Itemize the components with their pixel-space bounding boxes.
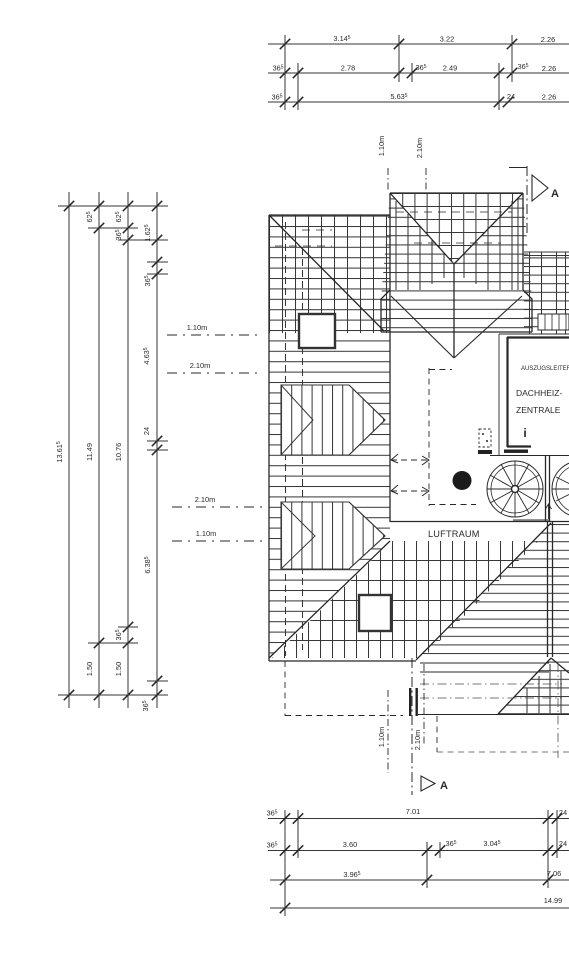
left dim col 1 [68,192,70,708]
bay flank vertical lines [396,199,518,290]
dormer 1 hatch [281,385,385,455]
svg-text:3.60: 3.60 [343,840,357,849]
spiral stair 2 inner [556,465,569,513]
top dim guide x399 [398,35,400,82]
top dim guide x512 [511,35,513,82]
stair up arrow [546,504,552,519]
section arrow A top [532,175,548,201]
bay eave bottom [381,331,532,333]
room top wall thick [507,336,569,338]
marker line 1.10m left lower [172,540,264,542]
small bar left of door [478,450,492,454]
svg-text:1.10m: 1.10m [377,727,386,748]
bay top eave edge [390,192,523,194]
svg-text:2.26: 2.26 [541,35,555,44]
svg-text:10.76: 10.76 [114,443,123,462]
bottom dim guide x440 [439,842,441,858]
dashed box dots [482,434,488,441]
bay dashed headroom line 1 [396,211,512,213]
section wall bar b [416,688,418,716]
svg-text:1.50: 1.50 [85,662,94,676]
room left wall inner thick [506,337,508,447]
svg-text:1.10m: 1.10m [377,136,386,157]
bay upper triangle hatch [390,193,523,264]
room top wall thin [499,333,569,335]
south slope hatch [272,541,538,658]
top dim guide x499 [498,63,500,110]
bottom dim row 3 line [270,879,569,881]
spiral stair 2 outer [552,461,569,517]
dashed luftraum boundary bottom [429,504,476,506]
dormer 1 gable lines [281,385,385,455]
svg-text:2.49: 2.49 [443,64,457,73]
left dim cross y681 [147,680,168,682]
left dim col 4 [156,192,158,708]
svg-text:7.01: 7.01 [406,807,420,816]
top dim guide x412 [411,63,413,82]
svg-text:A: A [551,188,559,200]
luftraum bottom edge [390,521,569,523]
svg-text:A: A [440,780,448,792]
bottom dim guide x557 [556,810,558,858]
left dim cross y240 [118,239,168,241]
bay lower region hatch [381,193,532,332]
marker line 1.10m left upper [167,334,262,336]
svg-text:24: 24 [142,427,151,435]
left dim cross y274 [147,273,168,275]
section wall bar a [409,688,411,716]
top dim guide x285 [284,35,286,110]
marker line 1.10m top [387,168,389,192]
marker line 2.10m bottom [423,664,425,745]
stairwell wall through roof a [547,522,549,657]
dash-dot lower line 1 [420,683,562,685]
stair area top line [490,455,569,457]
bottom dim row 4 line [270,907,569,909]
dashed box near stair [479,429,491,447]
marker line 2.10m top [425,168,427,192]
left dim col 3 [127,192,129,708]
flat area left edge [389,193,391,522]
svg-text:DACHHEIZ-: DACHHEIZ- [516,388,562,398]
dashed terrace bottom [437,751,569,753]
left dim ticks [64,201,74,211]
room bottom wall thick [507,445,531,447]
section line A bottom [411,658,413,795]
top dim row 2 line [268,72,569,74]
marker line 1.10m bottom [387,690,389,773]
svg-text:13.615: 13.615 [55,441,64,463]
bay valley right [454,193,523,264]
stairwell wall through roof b [552,522,554,657]
bottom dim guide x298 [297,810,299,858]
svg-text:3.22: 3.22 [440,35,454,44]
chimney filled circle [453,471,472,490]
wall bottom eave edge [269,660,416,662]
svg-text:AUSZUGSLEITER: AUSZUGSLEITER [521,366,569,372]
spiral stair 1 inner [491,465,539,513]
dashed terrace vertical [436,716,438,752]
dashed luftraum boundary top stub [429,369,452,371]
left dim cross y695 [58,694,168,696]
svg-text:24: 24 [559,839,567,848]
eave SE bottom [418,714,569,716]
left dim cross y441 [147,440,168,442]
PLAN-OUTLINE [167,166,569,795]
west slope vertical dashed line a [285,222,287,656]
spiral stair 1 hub [512,486,519,493]
bay right wall [522,193,524,290]
svg-text:2.10m: 2.10m [195,495,216,504]
bottom dim guide x548 [547,810,549,888]
svg-text:i: i [523,426,526,440]
wall left eave edge [268,215,270,661]
svg-text:1.50: 1.50 [114,662,123,676]
top dim row 1 line [268,43,569,45]
lower roof edge line a [420,662,549,664]
skylight square 1 [299,314,335,348]
lower roof edge line b [420,671,549,673]
svg-text:2.10m: 2.10m [413,730,422,751]
spiral stair 1 bottom chord [513,519,549,521]
bottom dim row 1 line [268,818,569,820]
dashed lower floor outline left vertical [284,661,286,716]
stairwell mid wall b [549,455,551,521]
headroom arrow line 2 [391,485,429,496]
left dim col 2 [98,192,100,708]
PLAN-HATCH [269,193,569,714]
dormer 2 hatch [281,502,385,569]
bottom dim ticks [280,813,290,823]
spiral stair 1 outer [487,461,543,517]
dash-dot vertical right lower [557,663,559,758]
svg-text:1.10m: 1.10m [196,529,217,538]
right band roof hatch [524,255,569,334]
dash-dot lower line 2 [420,697,562,699]
roof face west slope hatch [269,215,390,658]
svg-text:2.26: 2.26 [542,64,556,73]
left dim cross y228 [88,227,138,229]
svg-text:LUFTRAUM: LUFTRAUM [428,529,480,539]
left dim cross y262 [147,261,168,263]
marker line 2.10m left lower [172,506,264,508]
bay ridge [453,264,455,357]
left dim cross y643 [88,642,138,644]
hip SE lower [498,658,551,714]
west slope vertical dashed line b [302,248,304,650]
svg-text:14.99: 14.99 [544,896,563,905]
section line A top [526,166,528,236]
top dim ticks [280,39,290,49]
skylight square 2 [359,595,391,631]
headroom arrow line 1 [391,454,429,465]
stairwell mid wall a [545,455,547,521]
svg-text:1.10m: 1.10m [187,323,208,332]
top dim guide x298 [297,63,299,110]
bay lower V right [454,296,522,358]
svg-text:2.78: 2.78 [341,64,355,73]
svg-text:2.10m: 2.10m [190,361,211,370]
section line A top stub [509,167,527,169]
dormer 2 body [281,502,385,569]
svg-text:24: 24 [507,92,515,101]
svg-text:2.10m: 2.10m [415,138,424,159]
door threshold bar [504,450,528,453]
section arrow A bottom [421,776,435,791]
bay lower V left [391,296,454,358]
bay dashed headroom line 2 [414,242,501,244]
spiral stair 1 spokes [487,461,543,517]
left dim cross y450 [147,449,168,451]
dormer 1 body [281,385,385,455]
bay eave flare right [523,290,532,332]
ladder box rungs [545,314,566,330]
ladder box AUSZUGSLEITER [538,314,569,330]
east slope hatch [416,523,569,714]
roof face NW triangle hatch [269,215,390,333]
bottom dim guide x285 [284,810,286,916]
bay valley left [390,193,454,264]
dashed lower floor outline bottom [285,715,403,717]
dashed luftraum boundary vertical [428,368,430,506]
marker line 2.10m left upper [167,372,262,374]
right band eave double line [524,252,569,256]
valley SE [416,523,551,660]
east slope lower vertical lines [527,664,561,713]
NW triangle dashed seg 1 [302,229,332,231]
dormer 2 gable lines [281,502,385,569]
svg-text:11.49: 11.49 [85,443,94,461]
hip B diagonal [269,541,390,658]
right band vertical lines [530,252,566,334]
room left wall outer [498,334,500,455]
svg-text:ZENTRALE: ZENTRALE [516,405,561,415]
NW triangle dashed seg 2 [275,245,332,247]
svg-text:24: 24 [559,808,567,817]
svg-text:7.06: 7.06 [547,869,561,878]
left dim cross y206 [58,205,168,207]
left dim cross y627 [118,626,138,628]
top dim row 3 line [268,101,569,103]
bottom dim guide x427 [426,842,428,888]
bottom dim row 2 line [268,850,569,852]
wall top eave edge left block [269,214,390,216]
svg-text:2.26: 2.26 [542,93,556,102]
spiral stair 2 spokes [552,477,569,501]
ridge SE stub [551,658,569,673]
bay eave flare left [381,290,390,332]
hip A diagonal [269,215,384,331]
